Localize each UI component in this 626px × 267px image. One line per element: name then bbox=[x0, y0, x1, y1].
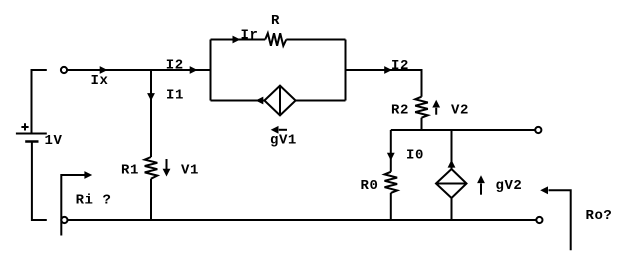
wire I1 branch down bbox=[150, 70, 152, 157]
svg-text:V2: V2 bbox=[451, 103, 469, 119]
wire loop exit to R2 corner bbox=[346, 70, 422, 97]
battery long plate bbox=[16, 133, 47, 135]
battery short plate bbox=[25, 140, 38, 143]
svg-text:gV1: gV1 bbox=[270, 133, 297, 149]
wire loop left vertical bbox=[210, 40, 212, 101]
arrowhead V1 annotation bbox=[163, 169, 171, 177]
arrowhead I1 bbox=[147, 93, 155, 101]
wire loop right vertical bbox=[345, 40, 347, 101]
svg-text:I1: I1 bbox=[166, 87, 184, 103]
wire top main bbox=[67, 69, 211, 71]
port terminal bottom right bbox=[536, 217, 542, 223]
svg-text:Ir: Ir bbox=[241, 28, 259, 44]
wire loop top left segment bbox=[211, 39, 266, 41]
arrowhead I2 first bbox=[190, 66, 198, 74]
svg-text:R0: R0 bbox=[361, 178, 379, 194]
arrowhead I2 second bbox=[384, 66, 392, 74]
battery bottom wire bbox=[32, 142, 47, 221]
resistor R0 bbox=[385, 172, 398, 193]
resistor R2 bbox=[415, 97, 428, 118]
dependent current source gV1 diamond bbox=[264, 86, 295, 116]
wire R0 bottom lead bbox=[390, 193, 392, 220]
svg-text:I2: I2 bbox=[166, 58, 184, 74]
port terminal top left bbox=[61, 67, 67, 73]
arrowhead gV2 wire up bbox=[448, 160, 456, 168]
svg-text:1V: 1V bbox=[45, 133, 63, 149]
arrowhead Ir bbox=[233, 36, 241, 44]
arrowhead gV2 annotation bbox=[477, 175, 485, 183]
wire bottom main bbox=[68, 219, 536, 221]
gV1 diamond vertical bar bbox=[279, 86, 281, 116]
wire R1 bottom lead bbox=[150, 179, 152, 220]
svg-text:R: R bbox=[271, 13, 280, 29]
annotation arrow line V2 bbox=[435, 108, 437, 115]
arrowhead gV1 annotation bbox=[271, 126, 279, 134]
arrowhead gV1 wire left bbox=[256, 97, 264, 105]
wire I0 branch down bbox=[390, 130, 392, 172]
svg-text:Ri ?: Ri ? bbox=[76, 193, 112, 209]
svg-text:R2: R2 bbox=[391, 103, 409, 119]
arrowhead Ri pointer bbox=[84, 171, 92, 179]
annotation arrow line gV2 bbox=[480, 183, 482, 194]
Ri pointer line bbox=[61, 175, 84, 236]
annotation arrow line gV1 bbox=[279, 129, 287, 131]
wire gV2 top lead bbox=[451, 130, 453, 169]
gV2 diamond horizontal bar bbox=[436, 183, 467, 185]
wire loop top right segment bbox=[286, 39, 345, 41]
wire mid right horizontal bbox=[391, 129, 536, 131]
svg-text:Ro?: Ro? bbox=[586, 208, 613, 224]
wire loop bottom left segment bbox=[211, 100, 265, 102]
resistor R1 bbox=[145, 157, 158, 179]
svg-text:I0: I0 bbox=[406, 147, 424, 163]
Ro pointer line bbox=[549, 190, 571, 250]
arrowhead Ro pointer bbox=[540, 186, 548, 194]
arrowhead I0 bbox=[387, 153, 395, 161]
port terminal top right bbox=[535, 127, 541, 133]
arrowhead Ix bbox=[100, 66, 108, 74]
wire loop bottom right segment bbox=[296, 100, 346, 102]
wire gV2 bottom lead bbox=[451, 198, 453, 220]
svg-text:I2: I2 bbox=[391, 58, 409, 74]
annotation arrow line V1 bbox=[166, 159, 168, 169]
dependent current source gV2 diamond bbox=[436, 169, 467, 198]
voltage source V 1V battery left branch top wire bbox=[32, 70, 47, 134]
svg-text:R1: R1 bbox=[121, 163, 139, 179]
battery plus sign bbox=[21, 123, 28, 130]
wire R2 bottom lead bbox=[421, 118, 423, 130]
svg-text:Ix: Ix bbox=[91, 73, 109, 89]
port terminal bottom left bbox=[61, 217, 67, 223]
arrowhead V2 annotation bbox=[432, 100, 440, 108]
svg-text:gV2: gV2 bbox=[496, 178, 523, 194]
svg-text:V1: V1 bbox=[181, 163, 199, 179]
resistor R bbox=[265, 33, 286, 46]
